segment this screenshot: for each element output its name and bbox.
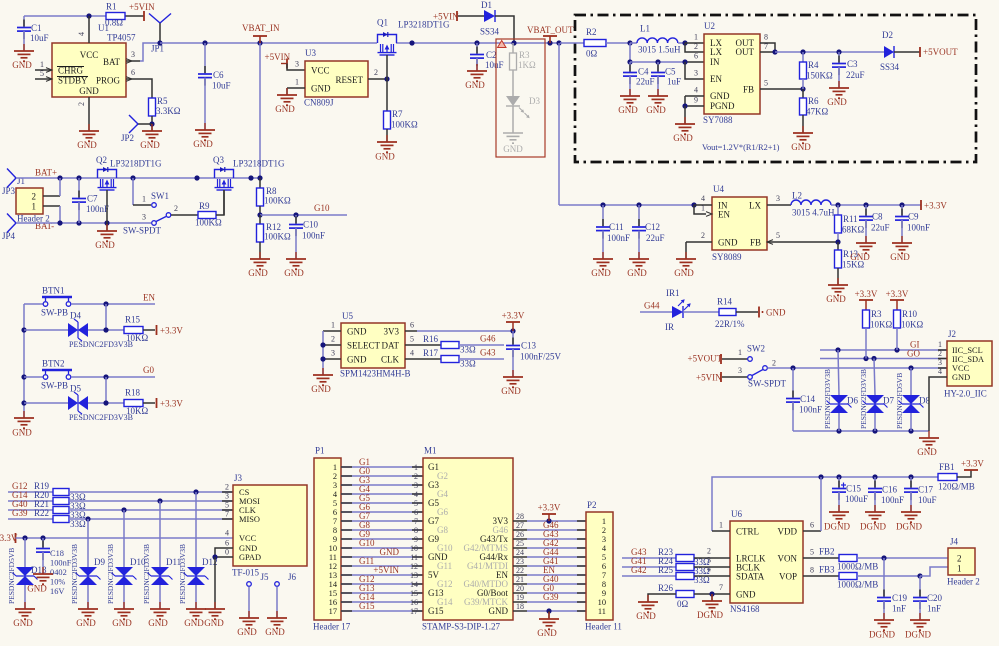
- svg-text:14: 14: [410, 580, 418, 589]
- svg-text:2: 2: [772, 359, 776, 368]
- jumper JP1 antenna: [159, 23, 161, 43]
- svg-text:100nF: 100nF: [86, 204, 109, 214]
- svg-text:+5VOUT: +5VOUT: [923, 47, 958, 57]
- power +5VOUT: [919, 47, 921, 57]
- svg-text:5: 5: [810, 548, 814, 557]
- diode D7 PESDNC2FD3V3B: [874, 359, 875, 396]
- diode D4 PESDNC2FD3V3B: [24, 329, 68, 331]
- svg-text:13: 13: [329, 571, 337, 580]
- svg-text:R8: R8: [266, 186, 277, 196]
- svg-text:C6: C6: [213, 70, 224, 80]
- wire M1 pin18: [513, 610, 527, 612]
- svg-text:C5: C5: [665, 67, 676, 77]
- svg-text:CN809J: CN809J: [304, 98, 334, 108]
- svg-text:12: 12: [410, 562, 418, 571]
- svg-text:100nF: 100nF: [907, 223, 930, 233]
- pin 3 U4 LX: [767, 204, 791, 206]
- svg-text:9: 9: [602, 589, 606, 598]
- svg-text:PESDNC2FD3V3B: PESDNC2FD3V3B: [69, 413, 133, 422]
- svg-text:14: 14: [329, 580, 338, 589]
- wire P1 pin3 G3: [341, 484, 423, 486]
- svg-text:R3: R3: [871, 309, 882, 319]
- svg-text:DGND: DGND: [896, 522, 922, 532]
- svg-text:OUT: OUT: [736, 47, 755, 57]
- svg-text:2: 2: [694, 42, 698, 51]
- svg-text:BAT+: BAT+: [35, 168, 57, 178]
- wire EN: [71, 303, 155, 305]
- svg-text:GND: GND: [710, 91, 730, 101]
- wire P1 pin8 G8: [341, 529, 423, 531]
- svg-text:EN: EN: [143, 293, 155, 303]
- svg-text:GND: GND: [503, 144, 523, 154]
- svg-text:GPAD: GPAD: [239, 553, 261, 562]
- ground DGND C17: [901, 505, 921, 522]
- wire P1 pin16 G14: [341, 601, 423, 603]
- pin 4 CLK wire: [405, 358, 441, 360]
- svg-text:VCC: VCC: [952, 364, 970, 373]
- svg-text:33Ω: 33Ω: [460, 345, 476, 355]
- ground U4: [676, 252, 696, 269]
- wire PROG to R5: [140, 79, 152, 98]
- wire R25 to U6: [694, 575, 730, 577]
- svg-text:G0: G0: [143, 365, 154, 375]
- svg-text:1: 1: [331, 321, 335, 330]
- svg-text:100nF: 100nF: [302, 231, 325, 241]
- resistor R8: [257, 188, 264, 206]
- svg-text:D9: D9: [94, 557, 105, 567]
- svg-text:3V3: 3V3: [384, 327, 400, 337]
- resistor R16: [441, 342, 459, 349]
- svg-text:10KΩ: 10KΩ: [126, 406, 148, 416]
- wire down to U4 rail: [558, 43, 560, 205]
- wire P1 pin1 G1: [341, 466, 423, 468]
- wire VON to J4: [857, 557, 948, 559]
- transistor Q2 LP3218DT1G: [98, 170, 117, 179]
- svg-text:+3.3V: +3.3V: [538, 503, 561, 513]
- svg-text:STAMP-S3-DIP-1.27: STAMP-S3-DIP-1.27: [422, 622, 501, 632]
- svg-text:HY-2.0_IIC: HY-2.0_IIC: [944, 389, 987, 399]
- svg-text:27: 27: [516, 521, 524, 530]
- svg-text:JP1: JP1: [151, 44, 164, 54]
- svg-text:100KΩ: 100KΩ: [195, 218, 222, 228]
- svg-text:3: 3: [414, 481, 418, 490]
- no-fit region box R3 D3: [496, 39, 545, 157]
- svg-text:MOSI: MOSI: [239, 497, 260, 506]
- svg-text:JP4: JP4: [2, 231, 16, 241]
- junction D1: [511, 40, 516, 45]
- svg-text:G44: G44: [644, 301, 660, 311]
- svg-text:C9: C9: [908, 212, 919, 222]
- junction R5 JP2: [149, 121, 154, 126]
- svg-text:+5VOUT: +5VOUT: [688, 354, 723, 364]
- wire G44: [640, 311, 672, 313]
- svg-text:GND: GND: [193, 139, 213, 149]
- svg-text:13: 13: [410, 571, 418, 580]
- svg-text:0402: 0402: [50, 568, 67, 577]
- capacitor C5: [657, 62, 659, 73]
- svg-text:GND: GND: [489, 606, 509, 616]
- wire P1 pin4 G4: [341, 493, 423, 495]
- wire P1 pin17 G15: [341, 610, 423, 612]
- svg-text:EN: EN: [718, 210, 730, 220]
- svg-text:J6: J6: [288, 572, 297, 582]
- svg-text:3: 3: [602, 535, 606, 544]
- svg-text:CHRG: CHRG: [58, 66, 84, 76]
- svg-text:GND: GND: [347, 355, 367, 365]
- ground C3: [829, 81, 849, 98]
- header J3 TF-015: [233, 485, 307, 566]
- svg-text:JP3: JP3: [2, 186, 16, 196]
- svg-text:100nF: 100nF: [799, 405, 822, 415]
- svg-text:10uF: 10uF: [485, 60, 504, 70]
- wire +3.3V to J3 VCC: [16, 537, 234, 539]
- svg-text:11: 11: [410, 553, 418, 562]
- wire P1 pin2 G0: [341, 475, 423, 477]
- svg-text:PESDNC2FD3V3B: PESDNC2FD3V3B: [178, 544, 187, 604]
- ground U2: [675, 117, 695, 134]
- svg-text:R14: R14: [717, 297, 733, 307]
- svg-text:R12: R12: [266, 222, 281, 232]
- wire M1 pin25: [513, 547, 527, 549]
- wire P1 pin5 G5: [341, 502, 423, 504]
- svg-text:R26: R26: [658, 583, 674, 593]
- resistor R1: [106, 13, 125, 20]
- capacitor C4: [629, 62, 631, 73]
- wire LX pins: [685, 42, 704, 44]
- svg-text:DGND: DGND: [824, 522, 850, 532]
- ground C6: [195, 123, 215, 140]
- wire M1 pin23: [513, 565, 527, 567]
- svg-text:C17: C17: [918, 485, 934, 495]
- svg-text:R1: R1: [106, 2, 117, 12]
- svg-text:G39: G39: [12, 508, 28, 518]
- svg-text:JP2: JP2: [121, 133, 134, 143]
- svg-text:BTN2: BTN2: [42, 359, 65, 369]
- power VBAT_OUT: [547, 40, 552, 45]
- ground DGND C16: [865, 505, 885, 522]
- svg-text:G11: G11: [437, 561, 452, 571]
- svg-text:RESET: RESET: [335, 75, 363, 85]
- ground M1 pin18: [546, 608, 551, 613]
- connector JP3 antenna: [7, 169, 16, 179]
- svg-text:3: 3: [333, 481, 337, 490]
- power +5VIN D1: [456, 11, 458, 21]
- svg-text:GND: GND: [12, 428, 32, 438]
- resistor R10: [894, 310, 901, 328]
- power VBAT_IN: [257, 40, 262, 45]
- pin 1 J1: [43, 205, 60, 207]
- svg-text:SW1: SW1: [151, 191, 169, 201]
- svg-text:R3: R3: [519, 50, 530, 60]
- wire VBAT_IN down to battery switch: [259, 43, 261, 178]
- svg-text:10KΩ: 10KΩ: [901, 320, 923, 330]
- svg-text:5: 5: [414, 499, 418, 508]
- svg-text:C2: C2: [486, 50, 497, 60]
- power +3.3V FB1: [957, 470, 971, 477]
- resistor R21: [53, 507, 69, 514]
- svg-text:VOP: VOP: [779, 572, 797, 582]
- wire VBAT_IN rail: [160, 42, 377, 44]
- ground J3: [205, 602, 225, 619]
- svg-text:C16: C16: [882, 485, 898, 495]
- pin 6 3V3 wire: [405, 330, 417, 332]
- svg-text:J5: J5: [261, 572, 270, 582]
- svg-text:7: 7: [414, 517, 418, 526]
- wire IR1 to R14: [683, 311, 719, 313]
- svg-text:VCC: VCC: [80, 50, 99, 60]
- svg-text:+5VIN: +5VIN: [265, 52, 291, 62]
- svg-text:R7: R7: [392, 109, 403, 119]
- svg-text:G39: G39: [543, 592, 559, 602]
- resistor R18: [124, 400, 143, 407]
- svg-text:1: 1: [701, 204, 705, 213]
- svg-text:G10: G10: [314, 203, 330, 213]
- capacitor C13: [512, 331, 514, 346]
- pin 2 U3 RESET wire: [368, 78, 387, 80]
- junction JP1: [157, 40, 162, 45]
- diode D8 PESDNC2FD5VB: [910, 368, 912, 395]
- svg-text:1: 1: [40, 60, 44, 69]
- svg-text:G43: G43: [480, 348, 496, 358]
- svg-text:8: 8: [602, 580, 606, 589]
- wire R23 to U6: [694, 557, 730, 559]
- power +3.3V U5: [512, 322, 514, 331]
- wire 3.3V buck input rail: [559, 204, 694, 206]
- svg-text:CLK: CLK: [239, 506, 256, 515]
- svg-text:PESDNC2FD3V3B: PESDNC2FD3V3B: [142, 544, 151, 604]
- svg-text:1nF: 1nF: [892, 604, 906, 614]
- svg-text:15: 15: [329, 589, 337, 598]
- svg-text:+3.3V: +3.3V: [924, 201, 947, 211]
- wire R10 to SCL: [896, 328, 898, 350]
- ground R13: [828, 278, 848, 295]
- wire M1 pin28: [513, 520, 527, 522]
- power +3.3V U4: [920, 200, 922, 210]
- svg-text:CTRL: CTRL: [736, 527, 759, 537]
- svg-text:G15: G15: [359, 601, 375, 611]
- ground DGND C19: [874, 613, 894, 630]
- ferrite bead FB2: [839, 555, 857, 562]
- resistor R5: [149, 98, 156, 116]
- svg-text:15: 15: [410, 589, 418, 598]
- svg-text:100nF: 100nF: [607, 233, 630, 243]
- svg-text:2: 2: [938, 349, 942, 358]
- wire G0: [71, 376, 155, 378]
- ground R7: [377, 135, 397, 152]
- svg-text:GND: GND: [380, 547, 400, 557]
- power +5VIN U3: [286, 59, 288, 69]
- svg-text:LP3218DT1G: LP3218DT1G: [233, 159, 285, 169]
- switch SW2 lever: [752, 370, 763, 376]
- pin 2 U1 GND: [88, 97, 90, 131]
- svg-text:1KΩ: 1KΩ: [518, 60, 536, 70]
- IC U1 TP4057: [52, 43, 126, 97]
- svg-text:100KΩ: 100KΩ: [264, 196, 291, 206]
- svg-text:100uF: 100uF: [845, 494, 868, 504]
- svg-text:5: 5: [333, 499, 337, 508]
- wire R9 to Q3 gate: [216, 190, 224, 215]
- LED D3 grayed: [512, 70, 514, 96]
- LED IR1 infrared: [672, 306, 683, 318]
- ground C18: [33, 567, 53, 584]
- svg-text:GND: GND: [827, 97, 847, 107]
- svg-text:D4: D4: [70, 311, 81, 321]
- wire OUT rail: [775, 51, 884, 53]
- capacitor C1: [23, 16, 25, 28]
- svg-text:GND: GND: [311, 84, 331, 94]
- svg-text:R5: R5: [157, 96, 168, 106]
- svg-text:5: 5: [410, 335, 414, 344]
- wire G43: [459, 358, 504, 360]
- svg-text:1: 1: [694, 33, 698, 42]
- svg-text:FB1: FB1: [939, 462, 955, 472]
- svg-text:28: 28: [516, 512, 524, 521]
- svg-text:Q3: Q3: [213, 155, 224, 165]
- svg-text:4: 4: [707, 565, 711, 574]
- wire D2 to +5VOUT: [894, 51, 920, 53]
- svg-text:G11: G11: [359, 556, 374, 566]
- svg-text:2: 2: [331, 335, 335, 344]
- wire U5 left ground rail: [323, 330, 341, 332]
- svg-text:VON: VON: [778, 554, 798, 564]
- capacitor C16: [874, 477, 876, 489]
- svg-text:0: 0: [225, 548, 229, 557]
- diode D9 PESDNC2FD3V3B: [87, 519, 89, 567]
- svg-text:16: 16: [329, 598, 337, 607]
- svg-text:1000Ω/MB: 1000Ω/MB: [837, 580, 878, 590]
- svg-text:C12: C12: [645, 222, 660, 232]
- wire J2 GND pin4: [929, 377, 947, 431]
- svg-text:L1: L1: [640, 24, 650, 34]
- IC U2 SY7088: [704, 34, 760, 114]
- resistor R3: [863, 310, 870, 328]
- pin 2 J1: [43, 195, 60, 197]
- pin 5 DAT wire: [405, 344, 441, 346]
- resistor R24: [676, 564, 694, 571]
- svg-text:5: 5: [776, 231, 780, 240]
- svg-text:+3.3V: +3.3V: [961, 459, 984, 469]
- svg-text:GND: GND: [311, 384, 331, 394]
- ground D13: [15, 602, 35, 619]
- svg-text:GND: GND: [850, 252, 870, 262]
- wire M1 pin19: [513, 601, 527, 603]
- resistor R22: [53, 516, 69, 523]
- svg-text:GND: GND: [148, 618, 168, 628]
- capacitor C7: [78, 178, 80, 199]
- pin 4 U1 VCC: [88, 16, 90, 43]
- pin 1 U1 CHRG: [35, 69, 52, 71]
- svg-text:33Ω: 33Ω: [460, 359, 476, 369]
- ground R5: [142, 124, 162, 141]
- svg-text:7: 7: [225, 510, 229, 519]
- svg-text:DGND: DGND: [697, 610, 723, 620]
- svg-text:SPM1423HM4H-B: SPM1423HM4H-B: [340, 369, 411, 379]
- svg-text:21: 21: [516, 575, 524, 584]
- wire R26 gnd: [648, 594, 676, 602]
- wire R14 to GND port: [736, 311, 758, 313]
- ground C2: [467, 64, 487, 81]
- capacitor C14: [792, 368, 794, 399]
- svg-text:2: 2: [225, 483, 229, 492]
- header J4: [948, 548, 975, 575]
- resistor R25: [676, 573, 694, 580]
- svg-text:2: 2: [374, 68, 378, 77]
- svg-text:PESDNC2FD5VB: PESDNC2FD5VB: [895, 373, 904, 429]
- svg-text:J3: J3: [234, 473, 243, 483]
- wire P1 pin6 G6: [341, 511, 423, 513]
- svg-text:GND: GND: [501, 386, 521, 396]
- svg-text:5: 5: [40, 69, 44, 78]
- svg-text:3: 3: [331, 349, 335, 358]
- wire P1 pin10 G10: [341, 547, 423, 549]
- wire R21 to J3: [69, 509, 233, 511]
- svg-text:100KΩ: 100KΩ: [264, 232, 291, 242]
- svg-text:BTN1: BTN1: [42, 286, 65, 296]
- svg-text:23: 23: [516, 557, 524, 566]
- svg-text:GND: GND: [76, 618, 96, 628]
- resistor R11: [837, 205, 839, 215]
- svg-text:10KΩ: 10KΩ: [870, 320, 892, 330]
- svg-text:GND: GND: [674, 268, 694, 278]
- svg-text:EN: EN: [710, 74, 722, 84]
- svg-text:G42: G42: [631, 565, 647, 575]
- ground D10: [114, 602, 134, 619]
- pin 5 FB wire: [760, 88, 803, 90]
- svg-text:GND: GND: [284, 268, 304, 278]
- svg-text:PESDNC2FD3V3B: PESDNC2FD3V3B: [859, 369, 868, 429]
- svg-text:STDBY: STDBY: [58, 76, 88, 86]
- IC U6 NS4168: [730, 521, 803, 603]
- wire U6 VDD rail: [712, 477, 938, 531]
- svg-text:5: 5: [764, 79, 768, 88]
- svg-text:GND: GND: [537, 628, 557, 638]
- svg-text:P2: P2: [587, 500, 597, 510]
- ERC marker: [498, 41, 507, 48]
- ground DGND U6: [711, 594, 713, 601]
- svg-text:3015 4.7uH: 3015 4.7uH: [792, 208, 835, 218]
- ground C11: [593, 252, 613, 269]
- svg-text:J2: J2: [948, 329, 956, 339]
- wire G14: [8, 500, 53, 502]
- pin 8 U6 VOP: [803, 575, 839, 577]
- svg-text:R2: R2: [586, 27, 597, 37]
- svg-text:10uF: 10uF: [30, 33, 49, 43]
- svg-text:22: 22: [516, 566, 524, 575]
- ground C13: [503, 370, 523, 387]
- svg-text:SW-PB: SW-PB: [41, 381, 68, 391]
- power +5VOUT SW2: [720, 354, 722, 364]
- svg-text:8: 8: [810, 566, 814, 575]
- diode D13 PESDNC2FD5VB: [24, 538, 26, 567]
- capacitor C6: [204, 43, 206, 74]
- svg-text:3: 3: [225, 492, 229, 501]
- svg-text:BAT: BAT: [103, 57, 121, 67]
- resistor R3 grayed: [512, 43, 514, 53]
- junction R2 L1: [627, 40, 632, 45]
- svg-text:16: 16: [410, 598, 418, 607]
- capacitor C12: [638, 205, 640, 227]
- IC U3 CN809J: [305, 61, 368, 97]
- svg-text:PGND: PGND: [710, 101, 735, 111]
- ground J6: [267, 611, 287, 628]
- svg-text:22uF: 22uF: [846, 70, 865, 80]
- svg-text:+3.3V: +3.3V: [855, 289, 878, 299]
- wire P1 pin15 G13: [341, 592, 423, 594]
- svg-text:2: 2: [701, 231, 705, 240]
- svg-text:TP4057: TP4057: [107, 33, 136, 43]
- svg-text:SY8089: SY8089: [712, 252, 742, 262]
- svg-text:10%: 10%: [50, 578, 65, 587]
